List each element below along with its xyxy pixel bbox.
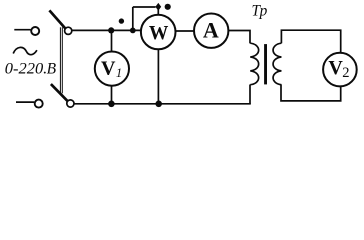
svg-text:W: W [149,23,169,44]
wire: diamond to W top [157,10,159,15]
wire: secondary top lead and top wire to V2 [281,30,340,53]
wire: secondary bottom lead and bottom wire [281,85,341,101]
terminal bottom-left [16,101,34,103]
svg-text:A: A [203,17,219,42]
wire: A to transformer primary top [229,31,251,44]
transformer primary coil [250,43,258,84]
wattmeter voltage-coil riser [132,7,134,30]
node junction bottom V1 [108,101,115,108]
terminal top-left [14,29,30,31]
wire: top pivot to wattmeter [72,29,141,31]
wire: W bottom lead [157,49,159,103]
polarity dot right [165,4,171,10]
transformer core [264,44,267,84]
svg-text:V: V [328,57,343,79]
voltmeter V2 [323,53,357,87]
svg-text:В: В [47,61,57,78]
wire: W to A [176,30,195,32]
wire: V1 top lead [111,30,113,51]
ammeter A [194,14,228,48]
polarity dot left [119,18,124,23]
node junction top V1 [108,27,114,33]
wire: primary bottom lead [249,85,251,104]
node diamond junction at W top [155,3,161,11]
svg-text:0-220.: 0-220. [5,59,47,78]
switch linkage double line [59,27,61,93]
node junction top W voltage coil [130,28,136,34]
AC source tilde symbol [13,47,37,54]
wire: V1 bottom lead [111,86,113,104]
switch pivot top [65,27,72,34]
wattmeter W [141,15,176,50]
svg-text:1: 1 [116,66,122,80]
svg-text:2: 2 [342,65,349,81]
wattmeter voltage-coil top wire [133,6,156,8]
voltmeter V1 [95,52,129,86]
svg-text:V: V [101,57,116,79]
switch blade bottom [51,84,69,103]
node junction bottom W [155,101,162,108]
svg-text:Тр: Тр [252,3,268,20]
transformer secondary coil [273,43,281,84]
wire: bottom pivot to primary bottom corner [74,103,251,105]
switch blade top [49,10,66,30]
switch pivot bottom [67,100,74,107]
